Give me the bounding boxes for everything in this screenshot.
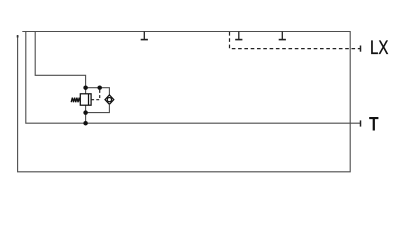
node junction valve top [83, 85, 88, 90]
wire check valve return [86, 104, 110, 113]
valve body [80, 94, 91, 105]
plugged port 3 [279, 32, 286, 40]
wire supply to valve [35, 32, 85, 94]
node junction tank line [83, 121, 88, 126]
svg-text:LX: LX [370, 37, 388, 59]
spring [71, 98, 80, 103]
svg-text:T: T [369, 114, 379, 136]
wire LX dashed pilot [230, 32, 361, 49]
enclosure box [18, 32, 351, 172]
plugged port 2 [235, 32, 242, 40]
node junction pilot tap [97, 85, 102, 90]
node junction return [83, 110, 88, 115]
wire branch to check valve [86, 88, 110, 95]
check valve V1 [105, 95, 114, 104]
node T tick [360, 120, 362, 126]
node LX tick [360, 46, 362, 52]
wire T vertical+horizontal [26, 32, 361, 124]
plugged port 1 [141, 32, 148, 40]
left edge top cap [17, 35, 19, 37]
pilot dashed line [91, 89, 100, 100]
wire valve drain [85, 105, 87, 123]
